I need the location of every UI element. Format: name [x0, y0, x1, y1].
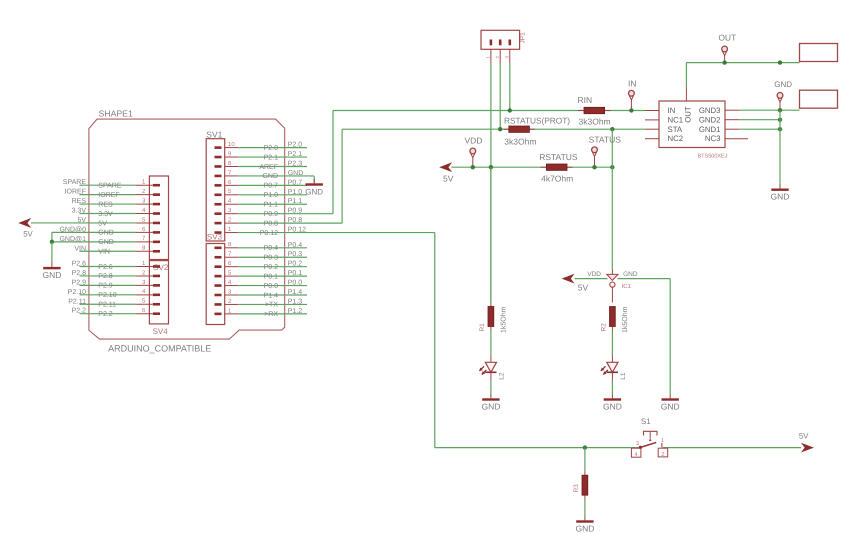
- svg-text:3k3Ohm: 3k3Ohm: [579, 116, 611, 126]
- svg-text:P2.9: P2.9: [98, 283, 113, 290]
- wire net P1.4 (SV3 pin 3): [238, 289, 307, 299]
- svg-text:P2.10: P2.10: [68, 289, 86, 296]
- junction OUT pin: [722, 60, 726, 64]
- svg-text:P2.11: P2.11: [98, 302, 116, 309]
- svg-text:10: 10: [228, 141, 235, 148]
- wire net P0.0 (SV3 pin 4): [238, 280, 307, 290]
- svg-text:STA: STA: [668, 125, 683, 134]
- wire GND3: [739, 109, 800, 111]
- svg-text:L1: L1: [620, 372, 627, 380]
- svg-text:P1.0: P1.0: [288, 189, 303, 196]
- wire L2 to GND: [490, 381, 492, 394]
- svg-text:5V: 5V: [23, 230, 33, 239]
- svg-text:BTS500XEJ: BTS500XEJ: [698, 154, 728, 160]
- LED L2: [479, 355, 505, 381]
- svg-text:GND: GND: [481, 402, 500, 412]
- svg-text:IC1: IC1: [622, 283, 632, 290]
- junction RSTATUS end / IC1 drop: [610, 165, 614, 169]
- svg-text:P1.0: P1.0: [264, 192, 279, 199]
- wire net P0.2 (SV3 pin 6): [238, 261, 307, 271]
- wire net P0.12 (SV1 pin 1): [238, 227, 435, 237]
- IC U1 BTS500XEJ: [645, 87, 748, 160]
- wire R3 feed: [584, 448, 586, 472]
- svg-text:1k5Ohm: 1k5Ohm: [500, 306, 508, 333]
- svg-text:GND: GND: [42, 270, 61, 280]
- junction VDD: [471, 165, 475, 169]
- svg-text:R3: R3: [573, 484, 580, 493]
- wire GND2: [739, 119, 780, 121]
- svg-text:RSTATUS: RSTATUS: [539, 152, 578, 162]
- svg-text:P2.2: P2.2: [72, 308, 87, 315]
- resistor R2 1k5Ohm: [601, 306, 629, 333]
- svg-text:P1.2: P1.2: [288, 308, 303, 315]
- pin symbol VDD: [465, 135, 483, 167]
- junction GND3: [778, 108, 782, 112]
- wire R1 feed: [490, 167, 492, 302]
- svg-text:GND@1: GND@1: [59, 235, 86, 243]
- svg-text:GND2: GND2: [699, 115, 721, 124]
- supply arrow 5V (RSTATUS line): [439, 162, 454, 183]
- ground symbol GND (SV1): [305, 179, 323, 196]
- pin symbol IN: [628, 79, 637, 111]
- junction R3 tap: [583, 445, 587, 449]
- wire net P2.8 (SV4 pin 2): [72, 270, 136, 280]
- svg-text:GND: GND: [623, 271, 638, 278]
- wire net IOREF (SV2 pin 2): [65, 189, 136, 199]
- wire net P1.3 (SV3 pin 2): [238, 298, 307, 308]
- ground symbol GND (IC1): [661, 394, 680, 411]
- svg-text:P2.6: P2.6: [98, 264, 113, 271]
- junction OUT / terminal: [778, 60, 782, 64]
- wire net P1.0 (SV1 pin 5): [238, 189, 307, 199]
- svg-text:P1.1: P1.1: [264, 202, 279, 209]
- svg-text:RSTATUS(PROT): RSTATUS(PROT): [504, 115, 570, 125]
- supply arrow 5V (right): [799, 431, 814, 452]
- junction GND@1 node: [50, 240, 54, 244]
- wire net P2.2 (SV4 pin 6): [72, 308, 136, 318]
- wire OUT net: [686, 63, 799, 87]
- svg-text:SV1: SV1: [206, 129, 222, 139]
- junction IN pin: [629, 108, 633, 112]
- LED L1: [601, 355, 627, 381]
- connector JP1: [481, 30, 527, 63]
- junction R1 feed: [489, 165, 493, 169]
- svg-text:>TX: >TX: [265, 302, 278, 309]
- wire GND branch (left): [51, 242, 53, 263]
- frame SHAPE1 (ARDUINO_COMPATIBLE outline): [89, 109, 285, 354]
- ground symbol GND (top right): [771, 184, 790, 201]
- svg-text:SPARE: SPARE: [63, 179, 87, 186]
- wire net RES (SV2 pin 3): [72, 198, 136, 208]
- svg-text:P2.9: P2.9: [72, 279, 87, 286]
- connector SV1: [206, 129, 238, 241]
- supply arrow 5V (left): [18, 218, 33, 239]
- svg-text:P1.3: P1.3: [288, 298, 303, 305]
- wire IN net (RIN line): [333, 110, 645, 112]
- resistor RIN 3k3Ohm: [578, 95, 611, 126]
- svg-text:P0.9: P0.9: [288, 208, 303, 215]
- wire VDD/5V net (RSTATUS line): [452, 166, 613, 168]
- svg-text:R1: R1: [479, 323, 486, 332]
- wire net P0.3 (SV3 pin 7): [238, 251, 307, 261]
- wire riser P0.8 to RSTATUS(PROT) line: [341, 129, 343, 223]
- pin symbol STATUS: [589, 135, 622, 168]
- svg-text:P1.1: P1.1: [288, 198, 303, 205]
- wire net P2.10 (SV4 pin 4): [68, 289, 136, 299]
- resistor RSTATUS(PROT) 3k3Ohm: [504, 115, 571, 146]
- wire IC1 GND branch: [618, 279, 671, 395]
- svg-text:P0.4: P0.4: [264, 245, 279, 252]
- wire P0.12 net to switch: [435, 447, 641, 449]
- svg-text:3: 3: [636, 441, 639, 447]
- svg-text:GND: GND: [98, 230, 114, 237]
- svg-text:P0.2: P0.2: [288, 261, 303, 268]
- wire L1 to GND: [611, 381, 613, 394]
- svg-text:GND: GND: [774, 80, 792, 89]
- ground symbol GND (L1): [603, 394, 622, 411]
- svg-text:P2.2: P2.2: [98, 311, 113, 318]
- terminal X2 (blade): [800, 90, 838, 108]
- svg-text:P2.0: P2.0: [288, 142, 303, 149]
- svg-text:VIN: VIN: [98, 249, 110, 256]
- junction GND1: [778, 127, 782, 131]
- svg-text:3.3V: 3.3V: [98, 211, 113, 218]
- svg-text:P2.1: P2.1: [264, 154, 279, 161]
- svg-text:GND: GND: [305, 188, 323, 197]
- wire JP1 pin3 drop: [509, 64, 511, 111]
- svg-text:P2.11: P2.11: [68, 298, 86, 305]
- svg-text:2: 2: [661, 452, 664, 458]
- wire riser P0.9 to RIN line: [332, 111, 334, 214]
- wire net P0.1 (SV3 pin 5): [238, 270, 307, 280]
- connector SV3: [206, 232, 238, 324]
- wire R3 to GND: [584, 499, 586, 516]
- svg-text:VDD: VDD: [465, 135, 483, 145]
- wire net 5V (SV2 pin 5): [31, 217, 135, 227]
- IC1 power symbol: [587, 270, 638, 303]
- connector SV4: [135, 260, 168, 336]
- svg-text:GND@0: GND@0: [59, 225, 86, 233]
- svg-text:SHAPE1: SHAPE1: [99, 109, 133, 119]
- svg-text:ARDUINO_COMPATIBLE: ARDUINO_COMPATIBLE: [108, 344, 211, 354]
- svg-text:GND3: GND3: [699, 106, 721, 115]
- svg-text:P2.6: P2.6: [72, 261, 87, 268]
- svg-text:NC2: NC2: [668, 134, 684, 143]
- svg-text:P2.3: P2.3: [288, 160, 303, 167]
- svg-text:P0.7: P0.7: [264, 183, 279, 190]
- wire net P1.2 (SV3 pin 1): [238, 308, 307, 318]
- wire JP1 pin2 drop: [499, 64, 501, 130]
- wire net P1.1 (SV1 pin 4): [238, 198, 307, 208]
- svg-text:GND: GND: [661, 402, 680, 412]
- svg-text:5V: 5V: [98, 220, 107, 227]
- junction STATUS: [592, 165, 596, 169]
- svg-text:OUT: OUT: [718, 32, 736, 42]
- svg-text:P0.0: P0.0: [264, 283, 279, 290]
- svg-text:P2.0: P2.0: [264, 145, 279, 152]
- svg-text:VDD: VDD: [587, 271, 601, 278]
- svg-text:IN: IN: [628, 79, 637, 89]
- wire R1 to L2: [490, 331, 492, 356]
- pin symbol GND (top right): [774, 80, 792, 110]
- resistor RSTATUS 4k7Ohm: [539, 152, 578, 183]
- wire net P2.11 (SV4 pin 5): [68, 298, 135, 308]
- svg-text:GND: GND: [98, 239, 114, 246]
- svg-text:P2.8: P2.8: [98, 273, 113, 280]
- svg-text:GND1: GND1: [699, 125, 721, 134]
- wire R2 to L1: [611, 331, 613, 356]
- svg-text:4: 4: [635, 452, 638, 458]
- svg-text:P0.1: P0.1: [288, 270, 303, 277]
- wire net P0.8 (SV1 pin 2): [238, 217, 342, 227]
- wire net P2.6 (SV4 pin 1): [72, 261, 136, 271]
- svg-text:P0.3: P0.3: [288, 251, 303, 258]
- svg-text:IOREF: IOREF: [98, 192, 119, 199]
- ground symbol GND (R3): [575, 516, 594, 533]
- svg-text:P0.8: P0.8: [288, 217, 303, 224]
- svg-text:GND: GND: [771, 192, 790, 202]
- wire net P0.9 (SV1 pin 3): [238, 208, 333, 218]
- junction JP1.3 / IN line: [508, 108, 512, 112]
- svg-text:P0.12: P0.12: [260, 230, 278, 237]
- wire GND drop (right): [779, 110, 781, 185]
- junction GND2: [778, 118, 782, 122]
- svg-text:5V: 5V: [443, 173, 454, 183]
- wire net GND@1 (SV2 pin 7): [52, 235, 135, 246]
- pin symbol OUT: [718, 32, 736, 62]
- wire JP1 pin1 drop: [490, 64, 492, 303]
- wire net P2.0 (SV1 pin 10): [238, 142, 307, 152]
- svg-text:SV3: SV3: [207, 232, 223, 241]
- svg-text:IOREF: IOREF: [65, 189, 86, 196]
- svg-text:L2: L2: [499, 372, 506, 380]
- svg-text:P0.4: P0.4: [288, 242, 303, 249]
- svg-text:5V: 5V: [578, 282, 589, 292]
- svg-text:OUT: OUT: [683, 106, 692, 123]
- wire net P2.1 (SV1 pin 9): [238, 151, 307, 161]
- terminal X1 (blade): [800, 44, 838, 62]
- wire net 3.3V (SV2 pin 4): [72, 208, 136, 218]
- wire net VIN (SV2 pin 8): [74, 245, 135, 255]
- switch S1: [631, 417, 667, 458]
- svg-text:P2.8: P2.8: [72, 270, 87, 277]
- svg-text:P1.4: P1.4: [288, 289, 303, 296]
- svg-text:SV4: SV4: [153, 327, 169, 336]
- resistor R1 1k5Ohm: [479, 303, 507, 334]
- svg-text:4k7Ohm: 4k7Ohm: [541, 174, 573, 184]
- svg-text:AREF: AREF: [259, 164, 278, 171]
- svg-text:P2.10: P2.10: [98, 292, 116, 299]
- svg-text:P0.2: P0.2: [264, 264, 279, 271]
- svg-text:RIN: RIN: [578, 95, 593, 105]
- svg-text:P0.12: P0.12: [288, 227, 306, 234]
- svg-text:GND: GND: [603, 402, 622, 412]
- svg-text:P0.8: P0.8: [264, 220, 279, 227]
- wire STA-to-IC1 vertical: [611, 129, 613, 167]
- svg-text:JP1: JP1: [520, 32, 527, 44]
- wire STA net (RSTATUS(PROT) line): [342, 128, 645, 130]
- svg-text:3k3Ohm: 3k3Ohm: [504, 137, 536, 147]
- wire GND1: [739, 128, 780, 130]
- svg-text:P0.9: P0.9: [264, 211, 279, 218]
- svg-text:SPARE: SPARE: [98, 183, 122, 190]
- svg-text:1k5Ohm: 1k5Ohm: [621, 306, 629, 333]
- svg-text:IN: IN: [668, 106, 676, 115]
- wire net SPARE (SV2 pin 1): [63, 179, 136, 189]
- svg-text:P0.3: P0.3: [264, 255, 279, 262]
- svg-text:>RX: >RX: [264, 311, 278, 318]
- wire net GND@0 (SV2 pin 6): [52, 225, 135, 241]
- wire switch to 5V arrow: [663, 447, 801, 449]
- svg-text:P0.7: P0.7: [288, 179, 303, 186]
- svg-text:5V: 5V: [77, 217, 86, 224]
- svg-text:P0.1: P0.1: [264, 273, 279, 280]
- ground symbol GND (L2): [481, 394, 500, 411]
- junction STA / IC1 branch: [610, 127, 614, 131]
- svg-text:5V: 5V: [799, 431, 809, 440]
- wire GND stub from SV1 pin 7: [313, 176, 315, 183]
- supply arrow 5V (IC1): [562, 274, 589, 293]
- svg-text:NC1: NC1: [668, 116, 684, 125]
- svg-text:GND: GND: [575, 524, 594, 534]
- svg-text:STATUS: STATUS: [589, 135, 622, 145]
- junction JP1.2 / STA line: [498, 127, 502, 131]
- svg-text:NC3: NC3: [705, 134, 721, 143]
- svg-text:R2: R2: [601, 323, 608, 332]
- svg-text:P1.4: P1.4: [264, 292, 279, 299]
- svg-text:VIN: VIN: [74, 245, 86, 252]
- svg-text:GND: GND: [288, 170, 304, 177]
- svg-text:RES: RES: [72, 198, 87, 205]
- svg-text:S1: S1: [641, 417, 651, 426]
- ground symbol GND (left): [42, 263, 61, 280]
- svg-text:1: 1: [661, 438, 664, 444]
- wire 5V to IC1 VDD: [575, 278, 608, 280]
- wire net GND (SV1 pin 7): [238, 170, 314, 180]
- resistor R3: [573, 471, 588, 499]
- svg-text:P2.1: P2.1: [288, 151, 303, 158]
- svg-text:RES: RES: [98, 201, 113, 208]
- wire net P0.7 (SV1 pin 6): [238, 179, 307, 189]
- svg-text:P0.0: P0.0: [288, 280, 303, 287]
- svg-text:3.3V: 3.3V: [72, 208, 87, 215]
- wire net P0.4 (SV3 pin 8): [238, 242, 307, 252]
- connector SV2: [135, 176, 169, 272]
- wire riser P0.12 down to switch line: [434, 233, 436, 448]
- wire net P2.9 (SV4 pin 3): [72, 279, 136, 289]
- wire net P2.3 (SV1 pin 8): [238, 160, 307, 170]
- svg-text:GND: GND: [262, 173, 278, 180]
